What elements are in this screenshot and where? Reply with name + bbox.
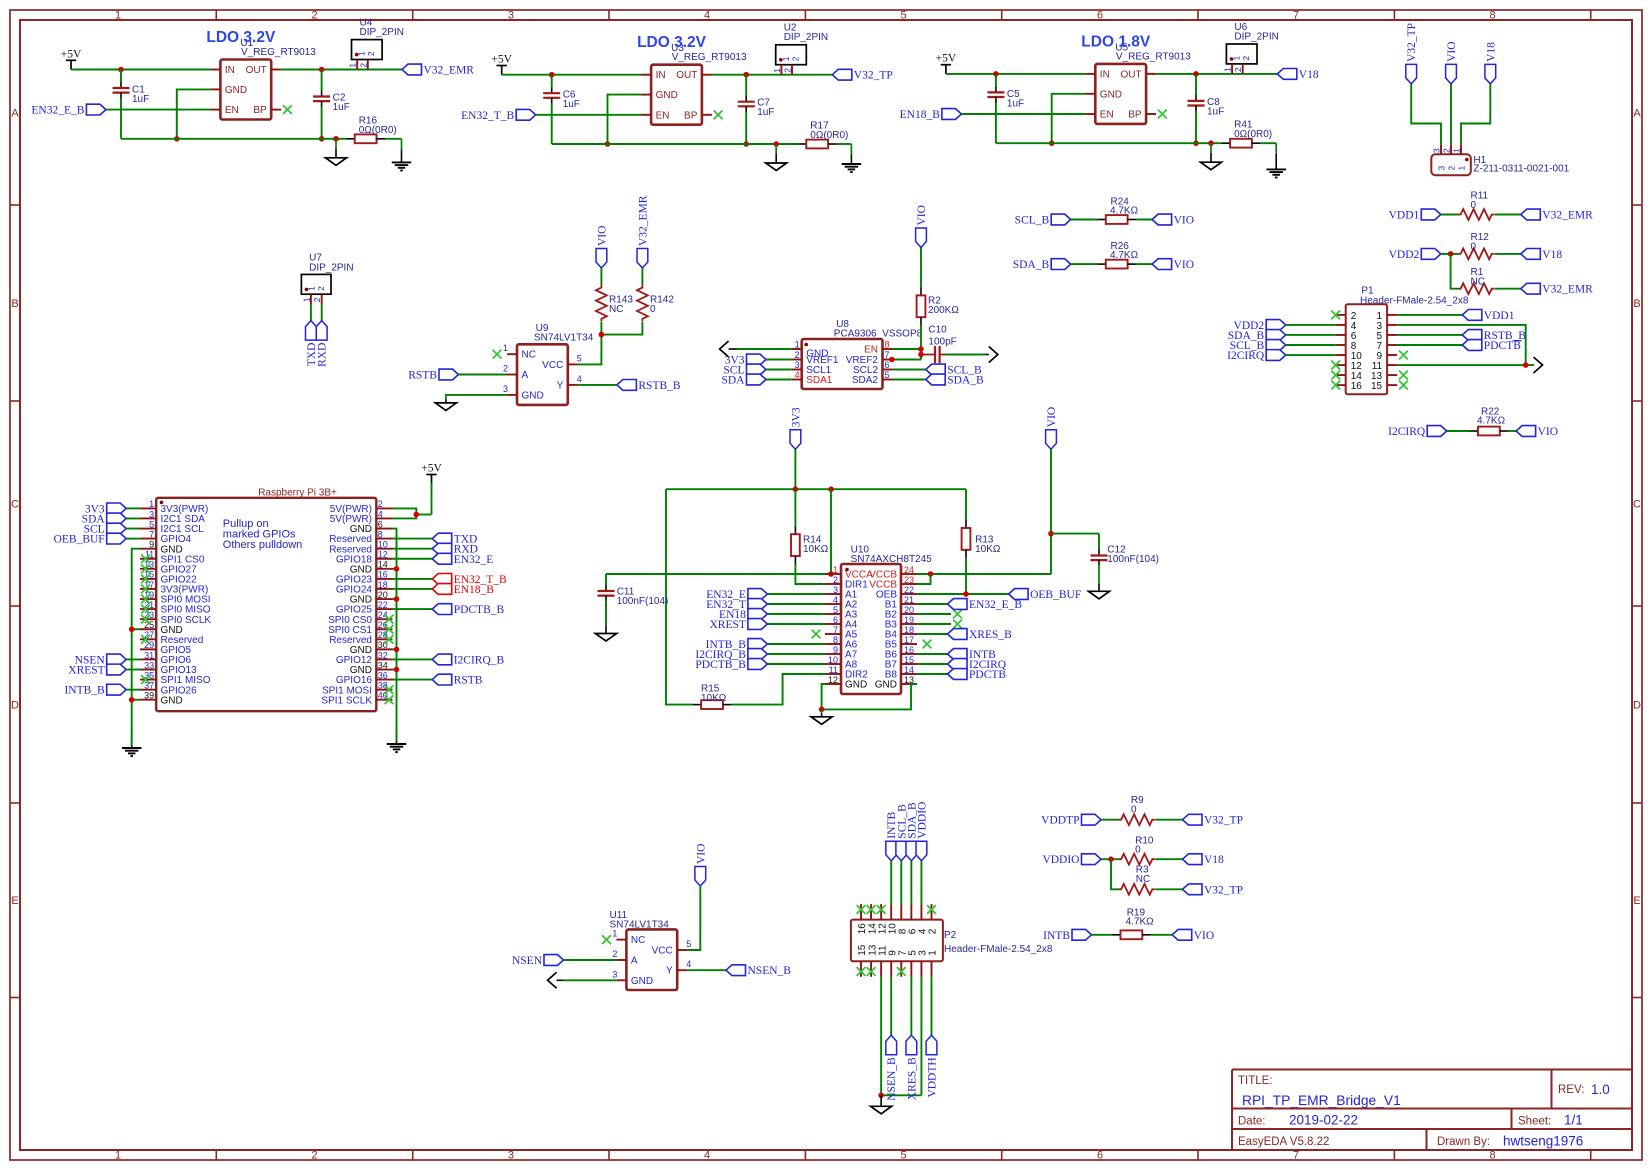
junction bbox=[993, 71, 999, 77]
capacitor C12 bbox=[1051, 534, 1159, 567]
svg-text:10: 10 bbox=[828, 655, 838, 665]
net flag VIO bbox=[1046, 407, 1058, 449]
svg-text:0: 0 bbox=[1131, 804, 1137, 815]
svg-text:Z-211-0311-0021-001: Z-211-0311-0021-001 bbox=[1473, 164, 1569, 175]
wire bbox=[917, 633, 948, 635]
svg-text:Drawn By:: Drawn By: bbox=[1437, 1136, 1490, 1148]
svg-text:V32_EMR: V32_EMR bbox=[637, 195, 649, 246]
svg-text:0: 0 bbox=[650, 304, 656, 315]
wire P1 pin7 bbox=[1397, 344, 1462, 346]
svg-text:20: 20 bbox=[904, 605, 914, 615]
svg-text:2: 2 bbox=[1233, 67, 1243, 72]
net flag SDA bbox=[721, 374, 766, 386]
wire bbox=[1101, 858, 1119, 860]
net port arrow bbox=[989, 347, 998, 363]
wire OUT to flag bbox=[281, 69, 402, 71]
svg-text:RSTB_B: RSTB_B bbox=[638, 380, 681, 392]
header P2 Header-FMale-2.54_2x8 bbox=[851, 904, 1053, 977]
svg-text:4.7KΩ: 4.7KΩ bbox=[1110, 250, 1139, 261]
net flag EN18_B bbox=[432, 584, 494, 596]
voltage regulator U1 V_REG_RT9013 bbox=[210, 38, 316, 120]
net flag VDD2 bbox=[1389, 249, 1441, 261]
svg-text:hwtseng1976: hwtseng1976 bbox=[1503, 1134, 1583, 1149]
net flag XRES_B bbox=[948, 629, 1013, 641]
net flag EN32_T_B bbox=[432, 573, 507, 585]
wire bbox=[393, 548, 433, 550]
svg-text:0: 0 bbox=[1471, 241, 1477, 252]
svg-text:B: B bbox=[11, 298, 18, 310]
svg-text:21: 21 bbox=[904, 595, 914, 605]
resistor R15 bbox=[693, 684, 732, 710]
svg-text:2: 2 bbox=[790, 56, 800, 61]
wire +5V to pins 2,4 bbox=[393, 484, 432, 519]
wire +5V to IN bbox=[946, 73, 1085, 75]
resistor R22 bbox=[1470, 406, 1509, 435]
junction bbox=[828, 571, 834, 577]
wire bus bbox=[121, 138, 346, 140]
net port arrow bbox=[548, 972, 557, 988]
svg-text:P2: P2 bbox=[944, 930, 957, 941]
no-connect on BP bbox=[283, 105, 292, 114]
wire OUT to flag bbox=[1156, 73, 1277, 75]
junction bbox=[1193, 71, 1199, 77]
svg-text:V18: V18 bbox=[1542, 249, 1562, 261]
svg-text:GND: GND bbox=[845, 680, 867, 691]
net flag V32_EMR bbox=[1521, 209, 1593, 221]
net flag V32_TP bbox=[1183, 814, 1243, 826]
svg-text:8: 8 bbox=[885, 340, 890, 350]
svg-text:5: 5 bbox=[686, 939, 691, 949]
svg-text:NSEN_B: NSEN_B bbox=[748, 965, 792, 977]
junction bbox=[1108, 856, 1114, 862]
svg-text:PDCTB_B: PDCTB_B bbox=[695, 659, 746, 671]
svg-text:1: 1 bbox=[115, 10, 121, 22]
wire SCL2 bbox=[893, 369, 926, 371]
svg-text:SCL_B: SCL_B bbox=[1015, 215, 1050, 227]
resistor R41 bbox=[1222, 120, 1273, 148]
net flag V32_TP bbox=[832, 69, 892, 81]
ground (signal) bbox=[435, 395, 456, 411]
wire bbox=[1286, 334, 1336, 336]
wire left rail to R15 bbox=[666, 489, 693, 704]
resistor R16 bbox=[346, 115, 397, 143]
wire +5V to IN bbox=[71, 69, 210, 71]
svg-text:2019-02-22: 2019-02-22 bbox=[1289, 1113, 1358, 1128]
svg-text:SN74LV1T34: SN74LV1T34 bbox=[534, 332, 594, 343]
right GND rail bbox=[393, 529, 397, 742]
wire bbox=[917, 663, 948, 665]
net flag VDDTP bbox=[1041, 814, 1101, 826]
svg-text:Sheet:: Sheet: bbox=[1518, 1116, 1551, 1128]
capacitor C10 bbox=[921, 324, 957, 363]
svg-text:DIP_2PIN: DIP_2PIN bbox=[1234, 31, 1278, 42]
net flag VIO bbox=[1172, 929, 1214, 941]
wire R143 to VCC bbox=[578, 322, 602, 365]
junction bbox=[118, 67, 124, 73]
junction bbox=[1448, 251, 1454, 257]
junction bbox=[918, 352, 924, 358]
wire R14 to DIR1 bbox=[795, 565, 825, 585]
junction bbox=[333, 136, 339, 142]
wire bbox=[1151, 934, 1172, 936]
ground (signal) bbox=[1201, 143, 1222, 170]
svg-text:EN: EN bbox=[864, 345, 878, 356]
wire VCCA drop bbox=[830, 489, 832, 574]
resistor R12 bbox=[1458, 232, 1521, 259]
net flag SDA_B bbox=[1013, 259, 1071, 271]
wire bbox=[767, 663, 825, 665]
svg-text:V32_TP: V32_TP bbox=[854, 70, 893, 82]
net flag V18 bbox=[1485, 42, 1497, 84]
svg-text:4: 4 bbox=[704, 1150, 710, 1162]
wire bbox=[767, 623, 825, 625]
label LDO 3.2V bbox=[206, 29, 276, 46]
net flag 3V3 bbox=[790, 407, 802, 449]
svg-text:5: 5 bbox=[833, 605, 838, 615]
wire bbox=[126, 528, 140, 530]
svg-text:4: 4 bbox=[833, 595, 838, 605]
wire bbox=[1136, 219, 1152, 221]
svg-text:VIO: VIO bbox=[916, 205, 928, 225]
net flag V18 bbox=[1183, 854, 1225, 866]
svg-text:1uF: 1uF bbox=[132, 94, 149, 105]
resistor R9 bbox=[1101, 795, 1183, 825]
net flag NSEN bbox=[512, 955, 564, 967]
svg-text:I2CIRQ: I2CIRQ bbox=[1388, 426, 1426, 438]
svg-text:10KΩ: 10KΩ bbox=[701, 693, 727, 704]
svg-text:PCA9306_VSSOP8: PCA9306_VSSOP8 bbox=[834, 329, 923, 340]
junction bbox=[394, 647, 400, 653]
net flag V32_EMR bbox=[402, 64, 474, 76]
svg-text:GND: GND bbox=[225, 85, 247, 96]
no-connect U10 B3 bbox=[917, 620, 962, 629]
net flag 3V3 bbox=[725, 354, 766, 366]
net flag EN32_T bbox=[706, 599, 767, 611]
wire bbox=[1071, 219, 1098, 221]
capacitor C11 bbox=[598, 574, 669, 607]
net flag EN32_T_B bbox=[461, 109, 536, 121]
wire GND1 bbox=[729, 348, 792, 350]
capacitor C5 bbox=[987, 74, 1024, 143]
net flag VDD1 bbox=[1389, 209, 1441, 221]
net flag SDA bbox=[82, 513, 127, 525]
svg-text:LDO 3.2V: LDO 3.2V bbox=[206, 29, 276, 46]
net flag EN18_B bbox=[900, 109, 962, 121]
svg-text:RSTB: RSTB bbox=[408, 370, 437, 382]
net flag VIO bbox=[695, 844, 707, 886]
svg-text:BP: BP bbox=[253, 105, 267, 116]
no-connect on BP bbox=[1158, 110, 1167, 119]
wire bbox=[1071, 263, 1098, 265]
svg-text:V_REG_RT9013: V_REG_RT9013 bbox=[672, 52, 747, 63]
wire bbox=[1447, 430, 1470, 432]
svg-text:NC: NC bbox=[631, 935, 645, 946]
left GND rail bbox=[132, 549, 140, 746]
svg-text:LDO 1.8V: LDO 1.8V bbox=[1081, 33, 1151, 50]
svg-text:C: C bbox=[11, 499, 19, 511]
svg-text:NSEN: NSEN bbox=[512, 955, 543, 967]
svg-text:Y: Y bbox=[557, 380, 564, 391]
wire bbox=[126, 538, 140, 540]
net flag SCL bbox=[84, 523, 127, 535]
net flag I2CIRQ bbox=[1227, 350, 1286, 362]
wire bbox=[767, 603, 825, 605]
svg-text:3: 3 bbox=[1432, 148, 1442, 153]
net flag NSEN_B bbox=[726, 965, 791, 977]
svg-text:TITLE:: TITLE: bbox=[1238, 1075, 1273, 1087]
svg-text:VIO: VIO bbox=[1538, 426, 1558, 438]
wire +5V to IN bbox=[502, 74, 641, 76]
junction bbox=[1208, 140, 1214, 146]
svg-text:2: 2 bbox=[366, 51, 376, 56]
svg-text:100pF: 100pF bbox=[928, 336, 956, 347]
resistor R10 bbox=[1119, 836, 1183, 865]
svg-text:3: 3 bbox=[508, 10, 514, 22]
resistor R143 bbox=[596, 268, 633, 321]
resistor R11 bbox=[1441, 190, 1521, 220]
svg-text:A: A bbox=[631, 956, 638, 967]
svg-text:1: 1 bbox=[1452, 148, 1462, 153]
title block bbox=[1232, 1070, 1632, 1151]
junction bbox=[549, 72, 555, 78]
svg-text:4: 4 bbox=[577, 374, 582, 384]
resistor R2 bbox=[916, 205, 960, 326]
svg-text:SDA1: SDA1 bbox=[806, 375, 833, 386]
svg-text:VDDIO: VDDIO bbox=[916, 802, 928, 839]
resistor R24 bbox=[1097, 196, 1138, 224]
svg-text:10KΩ: 10KΩ bbox=[803, 544, 829, 555]
junction bbox=[414, 512, 420, 518]
svg-text:2: 2 bbox=[378, 499, 383, 509]
wire bus bbox=[996, 142, 1222, 144]
svg-text:1uF: 1uF bbox=[563, 99, 580, 110]
svg-text:2: 2 bbox=[1446, 166, 1456, 171]
svg-text:XRES_B: XRES_B bbox=[969, 629, 1012, 641]
svg-text:DIP_2PIN: DIP_2PIN bbox=[360, 27, 404, 38]
svg-text:1: 1 bbox=[149, 499, 154, 509]
net flag TXD bbox=[432, 533, 477, 545]
svg-text:INTB_B: INTB_B bbox=[64, 685, 105, 697]
svg-text:6: 6 bbox=[378, 519, 383, 529]
svg-text:Others pulldown: Others pulldown bbox=[223, 539, 302, 551]
net flag VIO bbox=[1152, 259, 1194, 271]
wire VDD2 bbox=[1441, 253, 1458, 255]
svg-text:3: 3 bbox=[795, 360, 800, 370]
wire bbox=[930, 977, 932, 1036]
svg-text:OEB_BUF: OEB_BUF bbox=[1030, 589, 1081, 601]
wire RSTB to A bbox=[459, 374, 508, 376]
svg-text:1uF: 1uF bbox=[757, 107, 774, 118]
wire V32_TP to H1 pin3 bbox=[1411, 84, 1441, 144]
wire GND to bus bbox=[1049, 94, 1085, 146]
net flag SCL_B bbox=[1015, 214, 1071, 226]
connector H1 Z-211-0311-0021-001 bbox=[1431, 144, 1569, 175]
svg-text:NC: NC bbox=[522, 350, 536, 361]
svg-text:Date:: Date: bbox=[1238, 1116, 1266, 1128]
svg-text:V18: V18 bbox=[1204, 854, 1224, 866]
svg-text:1uF: 1uF bbox=[333, 102, 350, 113]
wire bbox=[900, 861, 902, 904]
svg-text:C10: C10 bbox=[928, 324, 947, 335]
svg-text:4: 4 bbox=[704, 10, 710, 22]
svg-text:NC: NC bbox=[1471, 276, 1485, 287]
ground (earth) bbox=[122, 735, 142, 756]
net flag I2CIRQ_B bbox=[432, 654, 504, 666]
ground (earth) bbox=[392, 139, 412, 171]
capacitor C2 bbox=[313, 70, 350, 142]
resistor R3 bbox=[1119, 864, 1183, 894]
junction bbox=[319, 67, 325, 73]
svg-text:EN32_T_B: EN32_T_B bbox=[461, 110, 514, 122]
svg-text:V18: V18 bbox=[1485, 42, 1497, 62]
wire Y bbox=[687, 969, 726, 971]
svg-text:2: 2 bbox=[1241, 56, 1251, 61]
buffer U10 SN74AXCH8T245 bbox=[825, 544, 932, 694]
svg-text:3: 3 bbox=[508, 1150, 514, 1162]
level shifter U8 PCA9306_VSSOP8 bbox=[792, 319, 923, 389]
svg-text:PDCTB: PDCTB bbox=[1484, 340, 1521, 352]
wire bbox=[917, 603, 948, 605]
svg-text:GND: GND bbox=[631, 976, 653, 987]
net flag SCL_B bbox=[1230, 340, 1286, 352]
net flag VDD2 bbox=[1234, 320, 1286, 332]
junction bbox=[129, 626, 135, 632]
svg-text:7: 7 bbox=[885, 350, 890, 360]
svg-text:OEB_BUF: OEB_BUF bbox=[54, 534, 105, 546]
wire bbox=[126, 507, 140, 509]
net flag PDCTB_B bbox=[432, 604, 504, 616]
net flag PDCTB bbox=[1462, 340, 1521, 352]
wire NSEN to A bbox=[564, 959, 617, 961]
wire OEB row bbox=[917, 593, 1009, 595]
svg-text:EN32_E: EN32_E bbox=[454, 554, 494, 566]
svg-text:15: 15 bbox=[1371, 381, 1383, 392]
svg-text:7: 7 bbox=[833, 625, 838, 635]
wire bbox=[890, 861, 892, 904]
wire bbox=[126, 517, 140, 519]
svg-text:2: 2 bbox=[783, 68, 793, 73]
svg-text:GND: GND bbox=[656, 90, 678, 101]
power flag +5V bbox=[61, 48, 82, 69]
wire GND bbox=[446, 394, 507, 396]
svg-text:XREST: XREST bbox=[68, 665, 104, 677]
svg-text:BP: BP bbox=[1128, 110, 1142, 121]
svg-text:36: 36 bbox=[378, 670, 388, 680]
wire bbox=[910, 861, 912, 904]
ground (signal) bbox=[595, 602, 616, 641]
svg-text:D: D bbox=[11, 700, 19, 712]
svg-text:EN: EN bbox=[656, 110, 670, 121]
svg-text:18: 18 bbox=[378, 580, 388, 590]
net flag EN32_E_B bbox=[31, 104, 106, 116]
resistor R13 bbox=[962, 489, 1001, 558]
svg-text:V32_TP: V32_TP bbox=[1204, 815, 1243, 827]
net flag VDD1 bbox=[1462, 310, 1514, 322]
wire GND to port bbox=[557, 979, 617, 981]
svg-text:11: 11 bbox=[829, 665, 838, 675]
svg-text:2: 2 bbox=[833, 575, 838, 585]
svg-text:Y: Y bbox=[666, 966, 673, 977]
svg-text:IN: IN bbox=[656, 70, 666, 81]
svg-text:6: 6 bbox=[1097, 1150, 1103, 1162]
net flag V18 bbox=[1277, 69, 1319, 81]
wire bbox=[126, 689, 140, 691]
svg-text:D: D bbox=[1633, 700, 1641, 712]
svg-text:3: 3 bbox=[1436, 166, 1446, 171]
wire bbox=[766, 379, 792, 381]
svg-text:I2CIRQ_B: I2CIRQ_B bbox=[454, 654, 505, 666]
ground (signal) bbox=[811, 709, 832, 724]
svg-text:EN32_E_B: EN32_E_B bbox=[969, 599, 1022, 611]
svg-text:31: 31 bbox=[144, 650, 154, 660]
svg-text:DIP_2PIN: DIP_2PIN bbox=[309, 263, 353, 274]
wire GND to bus bbox=[174, 89, 210, 141]
svg-text:SDA_B: SDA_B bbox=[1013, 259, 1050, 271]
junction bbox=[918, 346, 924, 352]
svg-text:0: 0 bbox=[1135, 844, 1141, 855]
svg-text:+5V: +5V bbox=[491, 54, 512, 66]
svg-text:EN18_B: EN18_B bbox=[454, 584, 495, 596]
wire bbox=[1286, 354, 1336, 356]
svg-text:PDCTB_B: PDCTB_B bbox=[454, 604, 505, 616]
svg-text:12: 12 bbox=[828, 675, 838, 685]
net flag SDA_B bbox=[1228, 330, 1286, 342]
svg-text:2: 2 bbox=[795, 350, 800, 360]
svg-text:GND: GND bbox=[161, 695, 183, 706]
svg-text:2: 2 bbox=[1442, 148, 1452, 153]
net flag VIO bbox=[1446, 41, 1458, 83]
svg-text:DIP_2PIN: DIP_2PIN bbox=[784, 32, 828, 43]
resistor R14 bbox=[791, 489, 829, 564]
svg-text:9: 9 bbox=[833, 645, 838, 655]
svg-text:V_REG_RT9013: V_REG_RT9013 bbox=[241, 47, 316, 58]
svg-text:SPI1 SCLK: SPI1 SCLK bbox=[321, 695, 372, 706]
svg-text:SN74AXCH8T245: SN74AXCH8T245 bbox=[851, 554, 933, 565]
svg-text:VIO: VIO bbox=[1194, 930, 1214, 942]
net flag EN32_E bbox=[706, 589, 767, 601]
wire SDA2 bbox=[893, 379, 926, 381]
junction bbox=[1048, 531, 1054, 537]
svg-text:37: 37 bbox=[144, 680, 154, 690]
wire EN bbox=[961, 113, 1085, 115]
wire to earth bbox=[837, 143, 852, 145]
svg-text:1: 1 bbox=[833, 565, 838, 575]
svg-text:SDA_B: SDA_B bbox=[947, 375, 984, 387]
svg-text:SDA: SDA bbox=[721, 375, 745, 387]
svg-text:16: 16 bbox=[1351, 381, 1363, 392]
svg-text:VDD1: VDD1 bbox=[1389, 210, 1420, 222]
wire bbox=[126, 669, 140, 671]
svg-text:VCC: VCC bbox=[652, 946, 673, 957]
net port arrow bbox=[1534, 357, 1543, 373]
wire VIO rail bbox=[917, 449, 1051, 574]
svg-text:E: E bbox=[11, 895, 18, 907]
svg-text:7: 7 bbox=[1293, 1150, 1299, 1162]
net flag RXD bbox=[432, 543, 478, 555]
svg-text:PDCTB: PDCTB bbox=[969, 669, 1006, 681]
junction bbox=[793, 486, 799, 492]
junction bbox=[773, 141, 779, 147]
svg-text:2: 2 bbox=[311, 10, 317, 22]
svg-text:A: A bbox=[11, 108, 19, 120]
junction bbox=[743, 72, 749, 78]
svg-text:1: 1 bbox=[301, 297, 311, 302]
svg-text:100nF(104): 100nF(104) bbox=[1107, 554, 1159, 565]
wire bbox=[393, 558, 433, 560]
net flag NSEN_B bbox=[886, 1035, 898, 1100]
capacitor C8 bbox=[1188, 74, 1225, 146]
svg-text:VCC: VCC bbox=[542, 360, 563, 371]
